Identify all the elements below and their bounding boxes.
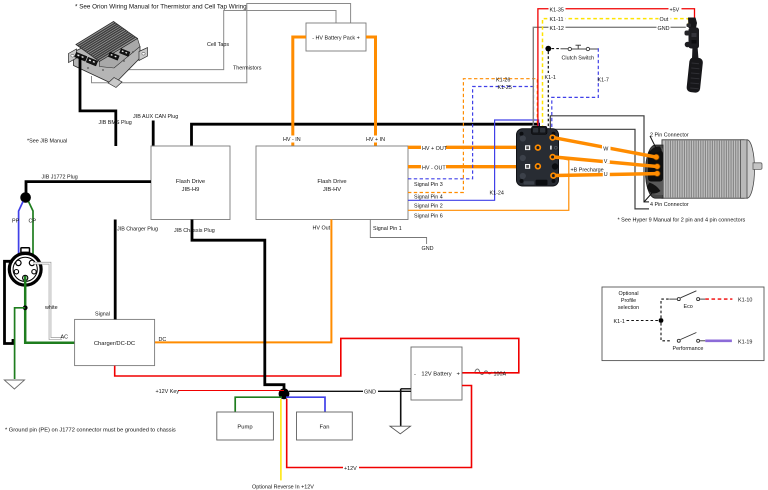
optional profile selection box [602, 287, 764, 361]
svg-text:JIB AUX CAN Plug: JIB AUX CAN Plug [133, 114, 178, 120]
svg-text:HV - OUT: HV - OUT [422, 165, 446, 171]
wire optional reverse (yellow) [280, 399, 282, 480]
orion flange right [139, 48, 148, 61]
svg-text:white: white [44, 305, 58, 311]
J1772 connector [9, 248, 41, 285]
controller right terminal ring W [550, 135, 555, 140]
clutch switch [545, 45, 598, 51]
svg-text:Cell Taps: Cell Taps [207, 42, 229, 48]
flash drive JIB-HV box [256, 146, 408, 220]
svg-text:Out: Out [660, 17, 669, 23]
svg-text:Performance: Performance [673, 346, 704, 352]
motor 4 pin connector blob [647, 183, 661, 194]
controller right terminal ring U [551, 173, 556, 178]
switch performance [677, 333, 705, 343]
svg-text:K1-10: K1-10 [738, 298, 752, 304]
svg-text:2 Pin Connector: 2 Pin Connector [650, 133, 689, 139]
wire JIB BMS plug (thick black) [80, 57, 116, 146]
motor hyper9 [646, 140, 763, 198]
motor body [662, 140, 744, 198]
svg-text:JIB BMS Plug: JIB BMS Plug [99, 120, 132, 126]
svg-text:* See Orion Wiring Manual for: * See Orion Wiring Manual for Thermistor… [75, 4, 247, 11]
svg-text:K1-1: K1-1 [614, 319, 625, 325]
wire signal pin 6 / +B precharge (orange thin) [408, 157, 569, 210]
wire signal pin 3 / K1-25 (blue dashed) [408, 87, 534, 179]
svg-text:JIB-H9: JIB-H9 [182, 187, 200, 193]
svg-text:Signal Pin 3: Signal Pin 3 [414, 182, 443, 188]
label HV + OUT [421, 144, 448, 152]
wire K1-12 GND (gray) [533, 27, 686, 129]
leader 2 pin connector [650, 136, 656, 148]
wire V (orange thick) [554, 157, 657, 167]
svg-text:- HV Battery Pack +: - HV Battery Pack + [312, 36, 359, 42]
orion heatsink top [76, 22, 138, 62]
ground chassis battery [390, 426, 411, 434]
pin PE [23, 275, 28, 280]
pin CP [29, 260, 34, 265]
svg-text:Signal Pin 2: Signal Pin 2 [414, 204, 443, 210]
wire HV + IN (orange thick, battery right to JIB-HV top) [366, 37, 376, 146]
svg-text:Fan: Fan [320, 425, 330, 431]
label V [603, 158, 610, 165]
svg-text:K1-12: K1-12 [550, 26, 564, 32]
controller corner bolts [520, 132, 524, 136]
svg-text:12V Battery: 12V Battery [421, 372, 451, 378]
pin L1 [14, 270, 18, 274]
svg-text:* Ground pin (PE) on J1772 con: * Ground pin (PE) on J1772 connector mus… [5, 428, 176, 434]
motor terminal V [654, 164, 660, 170]
svg-text:V: V [604, 159, 608, 165]
svg-text:HV - IN: HV - IN [283, 137, 301, 143]
controller left terminal ring top [536, 145, 541, 150]
svg-text:+12V: +12V [344, 466, 357, 472]
svg-text:W: W [603, 146, 609, 152]
wire PE bracket (thick black) [5, 261, 14, 343]
svg-text:K1-1: K1-1 [545, 75, 556, 81]
wire +12V key (red thin) [178, 390, 284, 392]
controller left bosses [520, 135, 526, 141]
fan box [297, 412, 353, 440]
wire 4-pin connector (dark gray) [554, 129, 650, 209]
wire K1-1 (black dashed) [547, 52, 549, 130]
svg-text:+B Precharge: +B Precharge [571, 168, 604, 174]
svg-text:-: - [414, 372, 416, 378]
wire K1-11 Out (yellow dashed) [543, 19, 689, 129]
controller bottom connector [536, 180, 548, 185]
wire thermistors (gray) [92, 4, 351, 83]
wire pump (green) [235, 397, 282, 412]
wire main harness JIB-H9 to controller (thick black) [192, 124, 539, 146]
node J1772 cable junction [20, 192, 31, 203]
svg-text:AC: AC [61, 335, 69, 341]
flash drive JIB-H9 box [151, 146, 230, 220]
svg-text:K1-35: K1-35 [550, 8, 564, 14]
wire cell taps (gray) [113, 11, 336, 70]
pedal control body [689, 28, 700, 49]
orion front lip [100, 39, 141, 69]
svg-text:Eco: Eco [684, 304, 693, 310]
charger box [75, 319, 155, 365]
throttle pedal [685, 18, 704, 94]
svg-text:+12V Key: +12V Key [156, 389, 180, 395]
wire HV - IN (orange thick, battery left to JIB-HV top) [293, 37, 306, 146]
svg-text:K1-11: K1-11 [550, 17, 564, 23]
svg-text:Flash Drive: Flash Drive [176, 179, 205, 185]
wire GND junction to battery minus (black) [289, 390, 411, 392]
wire K1-35 +5V (red) [538, 9, 695, 129]
svg-text:K1-24: K1-24 [490, 191, 504, 197]
motor right cap [747, 140, 755, 198]
label Out [659, 15, 671, 23]
motor 2 pin connector blob [650, 146, 662, 153]
svg-text:*See JIB Manual: *See JIB Manual [27, 139, 67, 145]
wire 2-pin connector (dark gray) [550, 116, 649, 202]
svg-text:Signal: Signal [95, 312, 110, 318]
wire JIB AUX CAN stub (thick black) [152, 121, 155, 147]
wire fan (blue) [286, 397, 325, 412]
svg-text:100A: 100A [494, 372, 507, 378]
label GND pedal [657, 24, 671, 32]
wire signal pin 4 / K1-26 (orange dashed) [408, 79, 537, 193]
wire PP (blue) [19, 202, 23, 260]
motor shaft [753, 163, 762, 170]
controller dark port [552, 163, 558, 169]
pin N [32, 270, 36, 274]
svg-text:HV Out: HV Out [313, 226, 331, 232]
label HV - OUT [421, 163, 446, 171]
svg-text:Thermistors: Thermistors [233, 66, 262, 72]
connector outer ring [9, 253, 41, 285]
label K1-1 [544, 73, 556, 81]
svg-text:HV + OUT: HV + OUT [422, 146, 448, 152]
connector inner ring [13, 257, 37, 281]
wire K1-10 (red dashed) [705, 298, 732, 300]
svg-text:Signal Pin 4: Signal Pin 4 [414, 195, 443, 201]
orion bms module (isometric) [69, 22, 148, 88]
svg-text:CP: CP [29, 219, 37, 225]
wire signal pin 1 (gray) [370, 220, 426, 245]
wire K1-1 dashed to node [627, 320, 660, 322]
controller terminal marker +B [525, 145, 530, 150]
orion flange bottom [108, 78, 122, 88]
svg-text:U: U [604, 172, 608, 178]
svg-text:K1-25: K1-25 [498, 85, 512, 91]
svg-text:Charger/DC-DC: Charger/DC-DC [94, 341, 135, 347]
svg-text:GND: GND [658, 26, 670, 32]
controller body [517, 129, 559, 186]
wire red fuse to battery [462, 372, 493, 374]
orion small screws [87, 51, 134, 71]
controller U1 [517, 126, 559, 186]
svg-text:PP: PP [12, 219, 20, 225]
wire HV - OUT (orange thick) [408, 165, 526, 168]
wire K1-7 (blue dashed) [552, 48, 599, 129]
svg-text:+5V: +5V [670, 8, 680, 14]
wire battery minus lead [401, 388, 411, 390]
svg-text:JIB-HV: JIB-HV [323, 187, 341, 193]
svg-text:K1-19: K1-19 [738, 339, 752, 345]
wire W (orange thick) [554, 138, 656, 157]
svg-text:K1-7: K1-7 [598, 78, 609, 84]
svg-text:Pump: Pump [237, 425, 252, 431]
wire K1-19 (purple) [705, 339, 732, 342]
svg-text:Flash Drive: Flash Drive [317, 179, 346, 185]
label GND [363, 388, 378, 396]
wire CP main down (green thick) [25, 276, 74, 343]
svg-text:HV + IN: HV + IN [366, 137, 385, 143]
wire JIB chassis plug (thick black) [192, 220, 284, 393]
node main 12V junction [279, 388, 290, 399]
label +12V [343, 464, 359, 472]
orion flange left [69, 49, 77, 63]
svg-text:selection: selection [618, 305, 639, 311]
svg-text:Optional Reverse In +12V: Optional Reverse In +12V [252, 485, 314, 490]
leader 4 pin connector [644, 193, 652, 202]
svg-text:Clutch Switch: Clutch Switch [562, 56, 595, 62]
label K1-12 [549, 24, 566, 32]
pedal pad [686, 57, 703, 93]
orion connector slots [74, 49, 130, 66]
fuse 100A [475, 369, 493, 374]
label +5V [669, 6, 682, 14]
svg-text:Signal Pin 6: Signal Pin 6 [414, 214, 443, 220]
svg-text:* See Hyper 9 Manual for 2 pin: * See Hyper 9 Manual for 2 pin and 4 pin… [618, 218, 746, 224]
wire red charger to battery plus [115, 338, 519, 376]
pedal stem [692, 46, 699, 59]
svg-text:Profile: Profile [621, 298, 636, 304]
switch eco [669, 291, 705, 301]
controller terminal marker -B [525, 164, 530, 169]
wire dashed up to eco [661, 299, 669, 318]
ground chassis left [4, 380, 24, 389]
svg-text:JIB Chassis Plug: JIB Chassis Plug [174, 228, 215, 234]
label K1-11 [549, 15, 566, 23]
node profile junction [659, 318, 664, 323]
label +B Precharge [570, 166, 604, 174]
wire HV + OUT (orange thick) [408, 146, 526, 149]
label K1-35 [549, 6, 566, 14]
controller right terminal ring +B [550, 155, 555, 160]
wire white (gray outline pair) [33, 263, 62, 338]
node green junction [23, 305, 28, 310]
svg-text:JIB Charger Plug: JIB Charger Plug [117, 227, 158, 233]
label U [603, 171, 610, 178]
label W [602, 145, 611, 153]
motor terminal plate [648, 151, 663, 182]
connector latch tab [21, 248, 30, 253]
svg-text:Optional: Optional [618, 291, 638, 297]
HV battery pack box [306, 23, 366, 51]
label HV - IN [282, 136, 302, 144]
svg-text:K1-26: K1-26 [496, 78, 510, 84]
orion bms body [74, 34, 141, 85]
wire DC to HV Out (orange) [155, 220, 331, 343]
wire JIB J1772 plug (thick black) [26, 182, 151, 193]
wire signal pin 2 / K1-24 (blue) [408, 120, 539, 200]
controller left terminal ring bottom [536, 164, 541, 169]
wire CP (green) [29, 202, 34, 260]
motor terminal U [654, 171, 660, 177]
pedal top connector [688, 18, 697, 29]
svg-text:GND: GND [422, 246, 434, 252]
svg-text:GND: GND [364, 390, 376, 396]
motor terminal W [653, 154, 659, 160]
pin PP [16, 260, 21, 265]
svg-text:4 Pin Connector: 4 Pin Connector [650, 202, 689, 208]
12V battery box [411, 347, 462, 400]
controller top connector [532, 126, 548, 134]
svg-text:Signal Pin 1: Signal Pin 1 [373, 226, 402, 232]
wire U (orange thick) [555, 174, 657, 176]
pump box [217, 412, 274, 440]
wire +12V loop battery to junction (red) [287, 386, 472, 468]
wire green branch to ground [15, 308, 26, 379]
wire ground drop [400, 389, 402, 426]
wire JIB charger plug (thick black) [114, 220, 117, 320]
motor right ring [741, 140, 748, 198]
wire dashed down to performance [661, 323, 672, 341]
svg-text:JIB J1772 Plug: JIB J1772 Plug [42, 175, 78, 181]
motor left end bell [646, 145, 664, 198]
label HV + IN [365, 136, 387, 144]
controller small bar [550, 146, 552, 150]
